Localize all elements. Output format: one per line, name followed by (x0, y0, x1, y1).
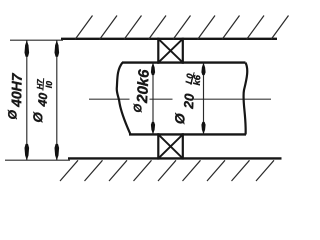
svg-text:Ø: Ø (5, 109, 19, 119)
svg-text:Ø: Ø (30, 111, 46, 123)
svg-text:l0: l0 (44, 80, 54, 88)
svg-text:Ø: Ø (172, 112, 188, 125)
svg-text:Ø: Ø (132, 103, 144, 112)
svg-text:20k6: 20k6 (134, 68, 153, 104)
svg-text:40: 40 (35, 92, 50, 108)
svg-text:40H7: 40H7 (8, 72, 25, 108)
svg-text:20: 20 (181, 93, 197, 110)
